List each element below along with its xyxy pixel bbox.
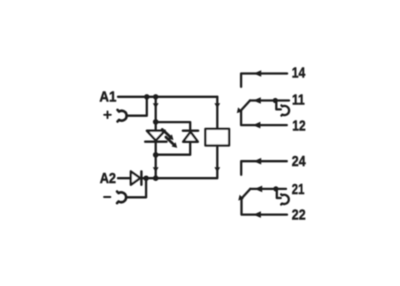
node LED top junction — [153, 119, 159, 125]
svg-text:22: 22 — [292, 208, 306, 224]
svg-text:11: 11 — [292, 92, 305, 108]
junction arrow down on LED branch — [153, 103, 159, 108]
relay coil K1 — [205, 129, 229, 146]
freewheel diode D2 cathode bar — [183, 129, 198, 131]
contact moving arm (top group) — [241, 101, 250, 111]
label minus sign — [104, 196, 110, 198]
node junction dot on A2 (LED branch) — [153, 175, 159, 181]
wire LED bottom to A2 rail — [155, 155, 157, 178]
svg-text:A1: A1 — [99, 89, 116, 105]
svg-text:12: 12 — [292, 118, 305, 134]
plug arrow on 11 line — [253, 97, 260, 104]
wire diode box top — [156, 122, 191, 131]
series diode D3 triangle (pointing right) — [131, 171, 140, 184]
series diode D3 cathode bar — [140, 171, 142, 184]
svg-text:24: 24 — [292, 154, 306, 170]
wire arm to 12 — [241, 111, 287, 125]
wire A2 rail right of diode — [142, 177, 155, 179]
LED light arrow 1 — [162, 129, 173, 140]
wire 11 socket drop — [276, 101, 281, 110]
node LED bottom junction — [153, 152, 159, 158]
freewheel diode D2 triangle (pointing up) — [183, 132, 198, 142]
contact moving arm (bottom group) — [242, 189, 251, 199]
svg-text:21: 21 — [292, 182, 305, 198]
LED light arrow 2 — [166, 137, 177, 148]
contact 24 line (NO bottom group) — [241, 161, 287, 175]
socket arc at 21 — [281, 194, 289, 204]
wire A1 rail — [118, 96, 217, 98]
wire LED anode stub — [155, 122, 157, 131]
terminal socket plus — [118, 110, 127, 122]
wire LED branch vertical from A1 — [155, 97, 157, 122]
plug arrow on 21 line — [255, 186, 263, 193]
plug arrow on 12 line — [253, 122, 261, 129]
plug arrow on 22 line — [253, 211, 261, 218]
node junction dot on A1 (LED branch) — [153, 94, 158, 99]
contact 11 common line (top group) — [250, 99, 289, 101]
wire minus branch — [126, 178, 146, 197]
junction arrow down on coil branch — [214, 103, 220, 108]
junction arrow down above A2 rail — [153, 167, 159, 172]
label plus sign — [104, 112, 111, 119]
plug arrow on 24 line — [254, 158, 262, 165]
LED D1 cathode bar — [145, 140, 166, 142]
contact 21 common line (bottom group) — [250, 188, 286, 190]
svg-text:14: 14 — [292, 66, 306, 82]
node dot on 11 line — [273, 98, 278, 103]
junction arrow down below coil — [214, 167, 220, 172]
wire diode box right lower — [156, 142, 191, 155]
node junction dot on A2 (minus branch) — [143, 176, 148, 181]
socket arc at 11 — [281, 105, 289, 115]
wire coil bottom to A2 rail — [156, 146, 218, 179]
wire coil branch vertical from A1 rail — [216, 97, 218, 129]
contact 14 line (NO top group) — [241, 74, 287, 87]
node junction dot on A1 (plus branch) — [144, 94, 149, 99]
wire plus branch vertical — [127, 97, 147, 116]
wire A2 rail left — [118, 177, 131, 179]
wire 21 socket drop — [277, 189, 281, 198]
wire arm to 22 — [242, 199, 288, 214]
arm arrowhead — [237, 107, 243, 113]
svg-text:A2: A2 — [100, 171, 116, 187]
arm arrowhead bottom group — [238, 195, 244, 201]
node dot on 21 line — [273, 186, 278, 191]
LED D1 triangle — [147, 131, 165, 141]
wire LED cathode stub — [155, 142, 157, 155]
terminal socket minus — [117, 192, 126, 204]
plug arrow on 14 line — [254, 70, 262, 77]
